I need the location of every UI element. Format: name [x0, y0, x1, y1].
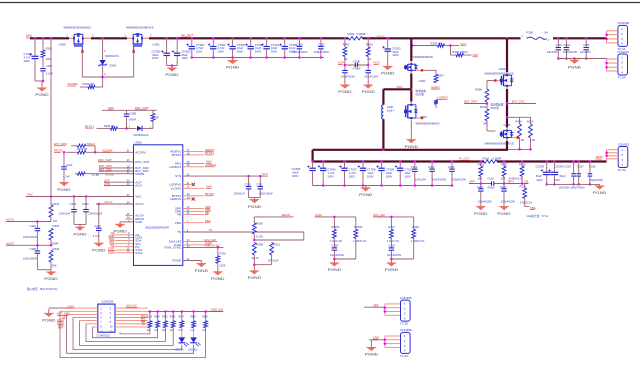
ground PGND C324: [73, 224, 86, 236]
junction C321: [259, 175, 262, 178]
wire C323 bot: [503, 191, 505, 205]
label C312 value: [63, 174, 70, 178]
svg-text:EXT_DRV: EXT_DRV: [54, 142, 67, 146]
junction rail C304: [565, 57, 568, 60]
junction CON302 p3: [605, 155, 608, 158]
net label REGN mid: [54, 149, 62, 153]
wire CT308 bot: [362, 171, 364, 186]
ground PGND CO302: [381, 65, 394, 76]
resistor R323: [49, 228, 53, 240]
svg-text:100nF/100V: 100nF/100V: [292, 50, 307, 54]
svg-text:1.8K/0.1%: 1.8K/0.1%: [330, 239, 343, 243]
svg-text:1M: 1M: [53, 219, 58, 223]
label R331: [274, 242, 281, 246]
label CO304 v2: [554, 178, 560, 182]
inductor L300: [382, 105, 394, 120]
capacitor C307: [40, 69, 46, 71]
capacitor C324: [59, 210, 77, 216]
label C327: [94, 224, 101, 228]
wire con304 gnd row: [49, 307, 70, 309]
junction bus C317: [577, 160, 580, 163]
label 0.005R: [493, 156, 502, 160]
wire SRN stub: [183, 211, 204, 213]
svg-text:BTST1: BTST1: [172, 153, 182, 157]
svg-text:R302: R302: [343, 43, 350, 47]
net label DRAC: [87, 142, 95, 146]
svg-text:1uF/100V 100nF/100V: 1uF/100V 100nF/100V: [559, 185, 585, 189]
wire R322 bot: [50, 217, 52, 221]
wire bat thin link: [507, 148, 531, 150]
net label SW1: [397, 85, 404, 89]
wire SW2 stub: [183, 187, 204, 189]
wire battery lower bus b: [497, 160, 607, 162]
label R361: [527, 120, 534, 124]
svg-text:100nF/100V: 100nF/100V: [432, 178, 446, 182]
svg-text:WMMDE06N08HG5: WMMDE06N08HG5: [126, 26, 154, 30]
svg-text:1.96K/0.1%: 1.96K/0.1%: [353, 239, 367, 243]
resistor R301: [41, 50, 45, 58]
wire QON pin: [115, 237, 134, 239]
svg-text:PGND: PGND: [568, 65, 581, 70]
svg-text:PGND: PGND: [195, 268, 208, 273]
net label SCL: [109, 240, 115, 244]
wire ACOV row2: [6, 244, 51, 246]
junction bus CO304: [553, 160, 556, 163]
svg-text:R319: R319: [519, 162, 526, 166]
label R320: [501, 162, 508, 166]
note vbat max: [527, 214, 549, 218]
wire C321 bot: [259, 189, 261, 198]
svg-text:5.23K: 5.23K: [256, 234, 263, 238]
wire source join: [82, 76, 133, 78]
resistor R335: [164, 321, 168, 328]
resistor R309: [434, 100, 438, 104]
wire CT301 top: [212, 38, 214, 46]
net label VAC: [27, 193, 34, 197]
net label ACDRV: [68, 82, 78, 86]
junction rail CT305: [283, 56, 286, 59]
wire C328 bot: [36, 253, 38, 269]
wire R323 bot: [50, 240, 52, 245]
capacitor CO300: [152, 49, 170, 60]
net label EXT_DRV: [54, 142, 67, 146]
resistor R328: [412, 229, 416, 238]
svg-text:100pF/100V: 100pF/100V: [314, 50, 329, 54]
resistor R321: [523, 188, 527, 198]
label R338: [190, 317, 196, 319]
chinese note G302: [416, 89, 427, 96]
svg-text:ACDRV: ACDRV: [68, 82, 78, 86]
svg-text:VAC: VAC: [473, 53, 480, 57]
wire ICHG top: [315, 216, 356, 218]
wire BTST1 b: [118, 127, 137, 129]
wire CT300 bottom: [191, 49, 193, 58]
ground PGND cap row: [226, 58, 239, 70]
svg-text:BQ25820RWVR: BQ25820RWVR: [146, 226, 170, 230]
wire CO303 bot: [546, 175, 548, 185]
label C329 value: [330, 253, 344, 257]
wire LED301 stub: [193, 328, 195, 338]
junction rail3 C316: [572, 183, 575, 186]
svg-text:MOS管: MOS管: [416, 92, 425, 96]
wire C315 bot: [451, 171, 453, 185]
label R360 value: [521, 138, 524, 142]
label LED301: [188, 348, 198, 351]
junction bus R320: [503, 160, 506, 163]
svg-text:ILIM_HIZ: ILIM_HIZ: [373, 213, 385, 217]
junction rail CT300: [191, 56, 194, 59]
capacitor CT306: [318, 165, 336, 178]
label WMMDE06N08HG5 G302: [413, 55, 433, 59]
svg-text:MODE: MODE: [135, 172, 144, 176]
capacitor CT309: [376, 165, 394, 178]
net label QON con: [58, 324, 64, 328]
svg-text:REGN: REGN: [282, 213, 290, 217]
svg-text:100V/100nF: 100V/100nF: [259, 191, 274, 195]
net label GND con: [373, 335, 379, 339]
label CO304 value: [560, 174, 566, 178]
label CO303 value: [536, 174, 542, 178]
svg-text:R325b: R325b: [354, 225, 362, 229]
wire G303 src a: [487, 80, 494, 82]
capacitor CO301: [172, 49, 191, 60]
wire ladder join: [254, 264, 271, 266]
svg-text:ICHG: ICHG: [315, 213, 323, 217]
svg-text:WMMDE06N08HG5: WMMDE06N08HG5: [485, 142, 515, 146]
svg-text:C315: C315: [448, 165, 455, 169]
svg-text:C32B: C32B: [353, 59, 360, 63]
svg-text:CON301: CON301: [617, 50, 629, 54]
wire C330 bot: [390, 250, 392, 259]
capacitor C313: [411, 165, 427, 182]
wire R327 top: [390, 217, 392, 229]
svg-text:CON302: CON302: [618, 142, 630, 146]
wire ACN pin: [104, 185, 134, 187]
wire R360R361 top: [507, 116, 531, 118]
svg-text:1.8K/0.1%: 1.8K/0.1%: [387, 239, 400, 243]
svg-text:0R: 0R: [532, 138, 535, 142]
wire C321 drop: [259, 176, 261, 186]
junction bus R302: [344, 37, 347, 40]
net label REGN right: [282, 213, 290, 217]
svg-text:66uF: 66uF: [536, 174, 542, 178]
wire IF_OUT upper bus: [313, 149, 508, 151]
svg-text:C330: C330: [388, 244, 395, 248]
net label AC_OUT: [181, 33, 193, 37]
wire pin19 stub: [183, 198, 192, 200]
wire C303 top: [557, 38, 559, 47]
wire CT303 top: [250, 38, 252, 46]
label CO303: [536, 165, 545, 169]
wire C318 bot: [589, 176, 591, 184]
capacitor C322: [478, 189, 484, 191]
wire R301 top: [42, 38, 44, 50]
wire lower cap rail: [313, 185, 452, 187]
wire SW1 stub: [183, 163, 204, 165]
svg-text:BTST1: BTST1: [205, 151, 214, 155]
svg-text:R337: R337: [178, 317, 184, 319]
wire LODRV1 stub: [183, 166, 204, 168]
label R327 value: [387, 239, 400, 243]
wire R332 top: [217, 247, 219, 255]
junction rail CT304: [265, 56, 268, 59]
junction bus C314: [431, 160, 434, 163]
svg-text:100V: 100V: [386, 174, 393, 178]
ground PGND ILIM_HIZ: [385, 259, 398, 272]
svg-text:VAC: VAC: [135, 195, 142, 199]
net label BTST1 pin: [205, 151, 214, 155]
wire CO304 top: [553, 162, 555, 173]
net label BAT_SRC: [512, 100, 525, 104]
wire G302 source wire: [423, 69, 436, 71]
label R333: [147, 317, 153, 319]
svg-text:CON300: CON300: [617, 21, 629, 25]
junction rail C305: [585, 57, 588, 60]
label C318: [589, 165, 596, 169]
svg-text:AC_OUT: AC_OUT: [181, 33, 193, 37]
wire CT302 bottom: [232, 49, 234, 58]
svg-text:VSYS: VSYS: [377, 34, 385, 38]
svg-text:PGND: PGND: [328, 267, 341, 272]
capacitor CT30A: [24, 52, 39, 63]
svg-text:SW2: SW2: [206, 185, 213, 189]
wire U300 left pin stubs: [125, 216, 134, 219]
junction R332: [217, 246, 220, 249]
wire C324 top: [73, 197, 75, 210]
svg-text:100V/100nF: 100V/100nF: [23, 256, 38, 260]
junction EXT_DRV: [94, 151, 97, 154]
wire CT305 bottom: [284, 49, 286, 58]
svg-text:C30B: C30B: [129, 111, 136, 115]
net label SDA: [109, 237, 115, 241]
junction bus R303: [367, 37, 370, 40]
label R323: [53, 224, 60, 228]
junction CO30x: [171, 64, 174, 67]
wire CT307 bot: [344, 171, 346, 186]
wire ACDRV wire: [86, 151, 134, 153]
resistor R310 sense: [484, 160, 497, 163]
svg-text:CON306: CON306: [400, 328, 412, 332]
wire BAT_SRC pin: [99, 170, 134, 172]
svg-text:100V: 100V: [554, 178, 560, 182]
label R332: [220, 252, 227, 256]
ground PGND CON304: [42, 309, 55, 323]
op-amp U300 BQ25820RWVR main charger IC: [127, 141, 190, 266]
svg-text:R331: R331: [274, 242, 281, 246]
junction bus CT307: [343, 160, 346, 163]
wire CO300 top: [166, 38, 168, 53]
capacitor C302: [314, 42, 329, 53]
ground PGND C327: [92, 241, 105, 252]
svg-text:R303: R303: [366, 43, 373, 47]
label C312: [66, 163, 73, 167]
wire C312 drop: [63, 152, 65, 167]
wire R305 a: [451, 54, 457, 56]
junction SRP: [480, 182, 483, 185]
wire CT305 top: [284, 38, 286, 46]
label R318: [478, 162, 485, 166]
svg-text:FSW_SYNC: FSW_SYNC: [165, 246, 183, 250]
label G304: [420, 115, 427, 119]
net label SYS: [461, 42, 467, 46]
junction BAT_DRV: [486, 102, 489, 105]
svg-text:0R: 0R: [344, 57, 348, 61]
svg-text:R307: R307: [438, 73, 445, 77]
junction bus CT306: [322, 160, 325, 163]
pin1 boot diode: [150, 125, 152, 128]
label CO303 v2: [536, 178, 542, 182]
svg-text:CO304 C316: CO304 C316: [555, 165, 571, 169]
wire L300 bottom: [382, 119, 384, 150]
svg-text:5.9K/0.1%: 5.9K/0.1%: [520, 200, 533, 204]
svg-text:PGND: PGND: [359, 192, 372, 197]
svg-text:PGND: PGND: [173, 259, 183, 263]
label 10R: [46, 57, 51, 61]
capacitor C321: [258, 187, 264, 189]
wire STA1 pin: [115, 249, 134, 251]
svg-text:C329: C329: [331, 244, 338, 248]
wire R334 top: [157, 312, 159, 321]
junction bus R319: [521, 160, 524, 163]
net label ACDRV mid: [103, 148, 113, 152]
capacitor CO302: [382, 46, 401, 57]
svg-text:NTC/10K: NTC/10K: [268, 258, 279, 262]
wire ACUV pin: [96, 203, 134, 205]
label 5.23K: [256, 234, 263, 238]
wire C325 bot: [85, 212, 87, 225]
svg-text:1uF/100V: 1uF/100V: [547, 50, 559, 54]
wire CT30A bottom: [34, 59, 36, 81]
capacitor CT307: [339, 165, 357, 178]
wire CON304 right pins: [115, 308, 148, 327]
label R339 value: [202, 330, 207, 332]
wire SRP stub: [183, 208, 204, 210]
wire boot R stub: [152, 110, 154, 113]
wire zener top: [102, 38, 104, 60]
capacitor CO304: [548, 169, 558, 174]
svg-text:C328: C328: [30, 247, 37, 251]
wire zener bottom: [102, 66, 104, 87]
connector CON305: [400, 296, 412, 326]
label G305: [504, 123, 511, 127]
svg-text:100V: 100V: [237, 50, 244, 54]
junction R304 tap: [411, 44, 414, 47]
wire G303 src b: [486, 81, 488, 90]
wire CE pin: [115, 234, 134, 236]
wire VAC vertical: [50, 38, 52, 196]
label C323 value: [501, 199, 515, 203]
resistor R324: [77, 144, 86, 147]
resistor R338: [192, 321, 196, 328]
wire FSW wire: [183, 246, 224, 248]
capacitor C312: [61, 167, 67, 169]
svg-text:SRN: SRN: [508, 180, 514, 184]
capacitor CT308: [358, 165, 376, 178]
wire SYS pin: [183, 175, 268, 177]
net label QON: [108, 234, 114, 238]
net label VIN con: [374, 303, 379, 307]
resistor R322: [49, 205, 53, 217]
svg-text:2.2K: 2.2K: [190, 330, 195, 332]
wire R308-R311: [486, 102, 488, 109]
wire CON301 pins: [607, 59, 618, 71]
capacitor C304: [563, 43, 570, 50]
svg-text:30.1K: 30.1K: [252, 256, 259, 260]
svg-text:100nF: 100nF: [129, 118, 137, 122]
svg-text:R327: R327: [388, 225, 395, 229]
svg-text:C327: C327: [94, 224, 101, 228]
wire R321 bot b: [525, 206, 530, 208]
net label FBG pin: [205, 219, 212, 223]
capacitor C326: [35, 228, 41, 230]
wire R319 bot: [521, 176, 523, 183]
connector CON301: [617, 50, 629, 80]
ground PGND C30x row: [568, 59, 581, 70]
wire C303 bot: [557, 50, 559, 59]
svg-text:R322: R322: [53, 202, 60, 206]
wire C320 drop: [248, 176, 250, 186]
wire CON304 left pins: [49, 308, 98, 327]
label R326b value: [330, 239, 343, 243]
label C319: [487, 177, 494, 181]
sheet top border: [0, 2, 640, 4]
svg-text:100V: 100V: [404, 174, 411, 178]
junction ladder bot: [253, 263, 256, 266]
resistor R339: [204, 321, 208, 328]
junction bus C304: [565, 37, 568, 40]
svg-text:FB: FB: [525, 180, 529, 184]
ground PGND R332: [211, 271, 224, 281]
label 2.2uF: [46, 71, 53, 75]
label C330: [388, 244, 395, 248]
wire CO300 bot: [166, 56, 168, 66]
label R302: [343, 43, 350, 47]
resistor R306: [151, 114, 159, 122]
svg-text:PGND: PGND: [73, 231, 86, 236]
net label VAC right: [473, 53, 480, 57]
wire G305 source: [506, 141, 508, 150]
wire BTST1 a: [97, 127, 111, 129]
net label BTST1 boot: [85, 124, 94, 128]
svg-text:HDRV1: HDRV1: [431, 85, 441, 89]
capacitor C316: [571, 174, 576, 176]
junction R319b: [521, 182, 524, 185]
resistor R361: [529, 124, 533, 138]
junction CON301 p2: [605, 62, 608, 65]
net label EXT_DRV con: [57, 312, 70, 316]
label R319: [519, 162, 526, 166]
no-connect X pin19: [192, 197, 195, 200]
svg-text:SYS: SYS: [175, 174, 181, 178]
wire FB stub: [183, 214, 204, 216]
wire loop nest 2: [86, 324, 165, 342]
wire C30B bot: [126, 116, 128, 128]
svg-text:100nF/100V: 100nF/100V: [341, 75, 355, 79]
wire G305 gate wire: [487, 130, 496, 132]
net label ACOV1: [6, 218, 14, 222]
junction bus CT301: [212, 37, 215, 40]
ground PGND CO30x: [165, 66, 178, 78]
wire SRP: [469, 183, 492, 185]
label R339: [202, 317, 208, 319]
wire C313 bot: [414, 171, 416, 185]
label R33B: [256, 242, 263, 246]
wire R307 drop: [435, 70, 437, 74]
svg-text:15K: 15K: [52, 263, 57, 267]
label LED300: [174, 348, 184, 351]
wire R361 stub: [530, 117, 532, 124]
svg-text:470pF: 470pF: [353, 67, 361, 71]
